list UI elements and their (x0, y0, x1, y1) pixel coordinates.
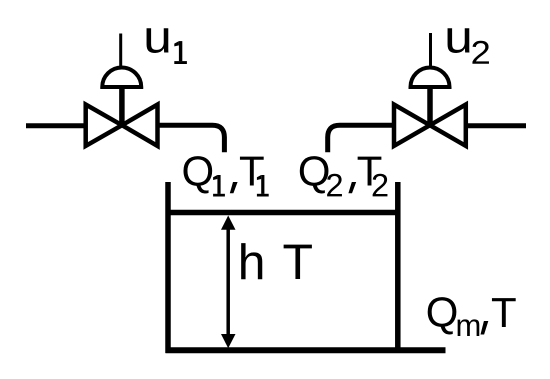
label u2: u (448, 28, 470, 53)
valve V2 signal line (429, 33, 432, 67)
tank bottom (166, 347, 446, 353)
wire valve V1 outlet to tank (157, 125, 224, 152)
wire left inlet pipe (26, 123, 86, 128)
label T2: subscript 2 (373, 174, 388, 197)
label Qm: subscript m (458, 319, 480, 336)
label Q2: subscript 2 (327, 174, 342, 197)
comma after Q1 (230, 182, 238, 193)
valve V1 body (86, 105, 158, 146)
label T1: T (240, 157, 264, 186)
level arrow h (double headed) (221, 216, 236, 349)
label u2: subscript 2 (472, 41, 489, 64)
wire right inlet pipe (466, 123, 526, 128)
label u1: subscript 1 (174, 41, 187, 64)
label Qm: Q (428, 297, 457, 334)
valve V1 actuator dome (102, 68, 141, 88)
label Q2: Q (300, 156, 329, 193)
valve V2 stem (427, 86, 433, 126)
tank left wall (165, 182, 171, 353)
label T (outlet temperature) (492, 298, 516, 327)
valve V2 body (394, 105, 466, 146)
valve V1 stem (119, 86, 125, 126)
label u1: u (147, 28, 169, 53)
water surface line (168, 210, 398, 216)
comma after Qm (481, 321, 489, 335)
comma after Q2 (348, 182, 356, 193)
valve V2 actuator dome (411, 68, 450, 88)
label T2: T (358, 157, 382, 186)
valve V1 signal line (119, 34, 122, 67)
label T (tank temperature) (284, 245, 312, 279)
wire valve V2 outlet to tank (328, 125, 394, 152)
label Q1: subscript 1 (213, 175, 225, 197)
label Q1: Q (183, 156, 212, 193)
tank right wall (395, 182, 401, 353)
label T1: subscript 1 (257, 175, 269, 197)
label h (241, 243, 262, 279)
